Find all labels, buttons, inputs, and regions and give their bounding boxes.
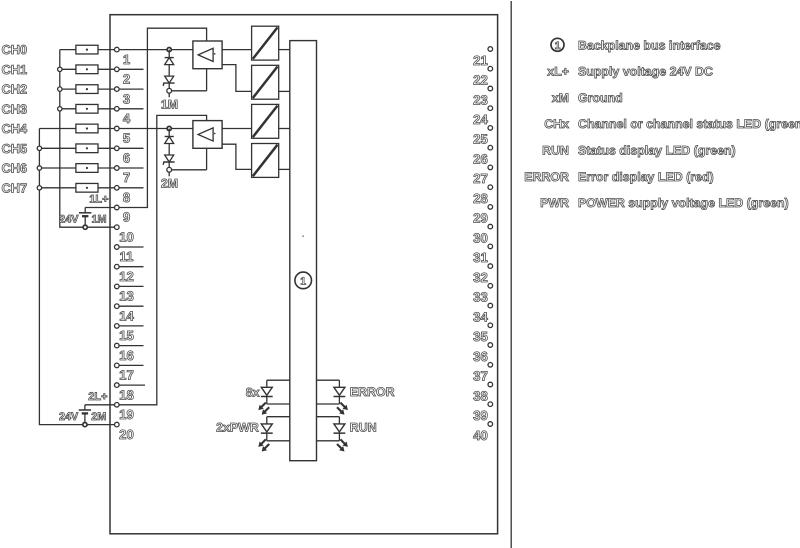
junction bus circle CH6 <box>37 166 41 170</box>
pin number 34 <box>473 309 488 324</box>
wire 2M to optocoupler return <box>172 148 207 170</box>
svg-text:36: 36 <box>473 349 488 364</box>
svg-text:37: 37 <box>473 369 488 384</box>
svg-text:2M: 2M <box>161 177 178 191</box>
resistor CH2 <box>76 85 98 94</box>
pin number 14 <box>119 308 134 323</box>
terminal 13 circle <box>115 284 120 289</box>
label ERROR (diagram) <box>350 385 395 399</box>
terminal 24 circle <box>488 106 493 111</box>
svg-text:5: 5 <box>123 131 130 146</box>
terminal 18 circle <box>115 383 120 388</box>
terminal 17 circle <box>115 363 120 368</box>
terminal 30 circle <box>488 224 493 229</box>
label 2xPWR <box>216 421 259 435</box>
terminal 35 circle <box>488 323 493 328</box>
pin number 30 <box>473 230 488 245</box>
stray dot mark <box>302 235 304 237</box>
terminal 38 circle <box>488 382 493 387</box>
terminal 37 circle <box>488 363 493 368</box>
svg-text:1: 1 <box>300 276 306 288</box>
pin number 16 <box>119 348 134 363</box>
svg-text:CH7: CH7 <box>2 180 28 195</box>
svg-text:Supply voltage 24V DC: Supply voltage 24V DC <box>578 65 713 79</box>
svg-text:40: 40 <box>473 428 488 443</box>
resistor CH5 <box>76 144 98 153</box>
junction diode chain 1 <box>167 48 171 52</box>
legend symbol circled 1 <box>551 38 564 52</box>
value label 24V (supply 2) <box>59 411 79 423</box>
wire battery 1 positive <box>85 207 114 209</box>
terminal 39 circle <box>488 402 493 407</box>
converter (electrical isolation) 3 <box>252 104 279 138</box>
legend text: Channel or channel status LED (green) <box>578 117 800 131</box>
pin number 10 <box>119 229 134 244</box>
svg-text:16: 16 <box>119 348 134 363</box>
svg-text:24: 24 <box>473 112 488 127</box>
terminal 19 circle <box>115 403 120 408</box>
wire CH4 input <box>39 128 114 130</box>
resistor CH6 <box>76 164 98 173</box>
svg-text:38: 38 <box>473 388 488 403</box>
pin number 35 <box>473 329 488 344</box>
resistor CH1 <box>76 65 98 74</box>
wire converter 4 to backplane bus <box>279 168 290 170</box>
terminal 32 circle <box>488 264 493 269</box>
terminal 3 circle <box>115 87 120 92</box>
terminal 14 circle <box>115 304 120 309</box>
wire terminal 12 stub <box>117 266 144 268</box>
resistor CH4 <box>76 124 98 133</box>
pin number 5 <box>123 131 130 146</box>
wire terminal 15 stub <box>117 325 144 327</box>
pin number 2 <box>123 72 130 87</box>
legend text: Backplane bus interface <box>578 38 721 52</box>
backplane bus <box>290 41 317 461</box>
wire terminal 4 stub <box>117 108 144 110</box>
wire terminal 5 to optocoupler <box>117 128 193 130</box>
wire optocoupler 1 out A <box>222 49 252 51</box>
svg-text:24V: 24V <box>59 214 79 226</box>
wire terminal 18 stub <box>117 384 145 386</box>
svg-text:1L+: 1L+ <box>89 194 108 206</box>
wire optocoupler 1 out B <box>222 65 252 92</box>
wire terminal 11 stub <box>117 246 144 248</box>
resistor CH3 <box>76 104 98 113</box>
terminal 8 circle <box>115 186 120 191</box>
legend label PWR <box>540 196 569 210</box>
label 8x <box>246 385 260 399</box>
diode (reverse polarity protection) group 2 <box>165 137 174 144</box>
svg-text:17: 17 <box>119 368 134 383</box>
svg-text:20: 20 <box>119 427 134 442</box>
legend label xM <box>552 91 569 105</box>
svg-text:Ground: Ground <box>578 91 623 105</box>
svg-text:CH3: CH3 <box>2 101 28 116</box>
svg-text:1: 1 <box>555 40 561 52</box>
terminal 21 circle <box>488 47 493 52</box>
pin number 1 <box>123 52 130 67</box>
pin number 27 <box>473 171 488 186</box>
pin number 20 <box>119 427 134 442</box>
wire terminal 1 to optocoupler <box>117 49 193 51</box>
wire terminal 6 stub <box>117 147 144 149</box>
terminal 20 circle <box>115 422 120 427</box>
terminal 33 circle <box>488 284 493 289</box>
node 2M label <box>161 177 178 191</box>
svg-text:22: 22 <box>473 73 488 88</box>
terminal 31 circle <box>488 244 493 249</box>
label RUN (diagram) <box>350 421 377 435</box>
node 1M terminal circle <box>167 88 172 97</box>
svg-text:Error display LED (red): Error display LED (red) <box>578 170 714 184</box>
pin number 26 <box>473 152 488 167</box>
terminal 15 circle <box>115 324 120 329</box>
svg-text:CH1: CH1 <box>2 62 28 77</box>
svg-text:30: 30 <box>473 230 488 245</box>
svg-text:ERROR: ERROR <box>524 170 569 184</box>
wire left bus 1 (CH0-CH3 to terminal 10) <box>60 50 115 228</box>
svg-text:CH4: CH4 <box>2 121 28 136</box>
wire terminal 2 stub <box>117 68 144 70</box>
pin number 38 <box>473 388 488 403</box>
pin number 17 <box>119 368 134 383</box>
wire diode chain 2 <box>168 129 170 168</box>
node CH0 label <box>2 42 28 57</box>
terminal 2 circle <box>115 67 120 72</box>
pin number 24 <box>473 112 488 127</box>
svg-text:15: 15 <box>119 328 134 343</box>
wire terminal 7 stub <box>117 167 144 169</box>
junction battery 2 on wire 20 <box>83 423 87 427</box>
node 2L+ label <box>88 391 107 403</box>
wire terminal 3 stub <box>117 88 144 90</box>
wire converter 2 to backplane bus <box>279 90 290 92</box>
junction bus circle CH3 <box>58 107 62 111</box>
terminal 7 circle <box>115 166 120 171</box>
LED PWR (2x) <box>258 417 290 452</box>
svg-text:1M: 1M <box>92 214 107 226</box>
junction bus circle CH1 <box>58 67 62 71</box>
page divider rule <box>510 1 512 548</box>
svg-text:CH6: CH6 <box>2 161 28 176</box>
LED ERROR <box>317 380 348 415</box>
junction bus circle CH7 <box>37 186 41 190</box>
junction battery 1 on wire 10 <box>83 225 87 229</box>
svg-text:Channel or channel status LED: Channel or channel status LED (green) <box>578 117 800 131</box>
svg-text:25: 25 <box>473 132 488 147</box>
wire CH1 input <box>60 68 115 70</box>
pin number 11 <box>120 249 134 264</box>
module enclosure box <box>110 15 498 534</box>
terminal 12 circle <box>115 264 120 269</box>
svg-text:33: 33 <box>473 290 488 305</box>
diode (reverse polarity protection) group 1 <box>165 58 174 65</box>
pin number 15 <box>119 328 134 343</box>
terminal 36 circle <box>488 343 493 348</box>
svg-text:9: 9 <box>123 210 130 225</box>
svg-text:27: 27 <box>473 171 488 186</box>
wire CH0 input <box>60 49 115 51</box>
wire terminal 13 stub <box>117 285 144 287</box>
svg-text:CHx: CHx <box>544 117 569 131</box>
terminal 4 circle <box>115 107 120 112</box>
svg-text:28: 28 <box>473 191 488 206</box>
wire CH2 input <box>60 88 115 90</box>
svg-text:6: 6 <box>123 151 130 166</box>
wire battery 2 positive <box>85 404 115 406</box>
svg-text:13: 13 <box>119 289 134 304</box>
node CH2 label <box>2 82 28 97</box>
svg-text:31: 31 <box>473 250 488 265</box>
wire optocoupler 2 out B <box>222 144 252 169</box>
svg-text:14: 14 <box>119 308 134 323</box>
svg-text:7: 7 <box>123 170 130 185</box>
svg-text:34: 34 <box>473 309 488 324</box>
pin number 33 <box>473 290 488 305</box>
pin number 22 <box>473 73 488 88</box>
battery 24V supply 2 <box>79 405 91 425</box>
wire terminal 16 stub <box>117 345 144 347</box>
pin number 7 <box>123 170 130 185</box>
terminal 10 circle <box>115 225 120 230</box>
pin number 8 <box>123 190 130 205</box>
wire terminal 9 to 1L+ loop <box>117 28 207 207</box>
node 1M label <box>161 98 178 112</box>
junction bus circle CH5 <box>37 146 41 150</box>
svg-text:2: 2 <box>123 72 130 87</box>
wire terminal 8 stub <box>117 187 144 189</box>
node 2M (supply) label <box>91 411 106 423</box>
wire converter 1 to backplane bus <box>279 49 290 51</box>
wire CH3 input <box>60 108 115 110</box>
svg-text:RUN: RUN <box>542 144 569 158</box>
zener diode group 2 <box>163 155 174 165</box>
node CH3 label <box>2 101 28 116</box>
pin number 6 <box>123 151 130 166</box>
svg-text:8x: 8x <box>246 385 260 399</box>
svg-text:2L+: 2L+ <box>88 391 107 403</box>
wire converter 3 to backplane bus <box>279 128 290 130</box>
pin number 13 <box>119 289 134 304</box>
svg-text:23: 23 <box>473 92 488 107</box>
terminal 28 circle <box>488 185 493 190</box>
converter (electrical isolation) 4 <box>252 144 279 178</box>
LED CHx status (8x) <box>258 380 290 415</box>
svg-text:12: 12 <box>119 269 134 284</box>
terminal 29 circle <box>488 205 493 210</box>
svg-text:4: 4 <box>123 111 131 126</box>
resistor CH7 <box>76 183 98 192</box>
legend text: Error display LED (red) <box>578 170 714 184</box>
svg-text:1: 1 <box>123 52 130 67</box>
svg-text:19: 19 <box>119 407 134 422</box>
svg-text:21: 21 <box>473 53 488 68</box>
svg-text:CH2: CH2 <box>2 82 28 97</box>
wire terminal 17 stub <box>117 364 144 366</box>
pin number 12 <box>119 269 134 284</box>
legend text: Supply voltage 24V DC <box>578 65 713 79</box>
node CH4 label <box>2 121 28 136</box>
wire diode chain 1 <box>168 50 170 89</box>
legend label xL+ <box>547 65 569 79</box>
pin number 9 <box>123 210 130 225</box>
svg-text:Backplane bus interface: Backplane bus interface <box>578 38 721 52</box>
node CH1 label <box>2 62 28 77</box>
svg-text:Status display LED (green): Status display LED (green) <box>578 144 736 158</box>
svg-text:PWR: PWR <box>540 196 569 210</box>
pin number 23 <box>473 92 488 107</box>
terminal 11 circle <box>115 245 120 250</box>
pin number 40 <box>473 428 488 443</box>
legend label ERROR <box>524 170 569 184</box>
pin number 37 <box>473 369 488 384</box>
terminal 34 circle <box>488 303 493 308</box>
node 1L+ label <box>89 194 108 206</box>
pin number 29 <box>473 211 488 226</box>
wire CH6 input <box>39 167 114 169</box>
legend label CHx <box>544 117 569 131</box>
terminal 23 circle <box>488 86 493 91</box>
svg-text:CH0: CH0 <box>2 42 28 57</box>
wire 1M to optocoupler return <box>172 69 207 91</box>
zener diode group 1 <box>163 76 174 86</box>
wire optocoupler 2 out A <box>222 128 252 130</box>
terminal 40 circle <box>488 422 493 427</box>
terminal 9 circle <box>115 205 120 210</box>
pin number 4 <box>123 111 131 126</box>
svg-text:POWER supply voltage LED (gree: POWER supply voltage LED (green) <box>578 196 789 210</box>
svg-text:18: 18 <box>119 387 134 402</box>
optocoupler group 2 <box>193 121 222 149</box>
pin number 28 <box>473 191 488 206</box>
wire terminal 19 to 2L+ loop <box>117 115 207 404</box>
resistor CH0 <box>76 45 98 54</box>
junction diode chain 2 <box>167 126 171 130</box>
terminal 26 circle <box>488 145 493 150</box>
node 2M terminal circle <box>167 167 172 176</box>
legend text: POWER supply voltage LED (green) <box>578 196 789 210</box>
pin number 21 <box>473 53 488 68</box>
svg-text:39: 39 <box>473 408 488 423</box>
pin number 3 <box>123 91 130 106</box>
svg-text:ERROR: ERROR <box>350 385 395 399</box>
pin number 36 <box>473 349 488 364</box>
LED RUN <box>317 417 348 452</box>
pin number 19 <box>119 407 134 422</box>
svg-text:32: 32 <box>473 270 488 285</box>
optocoupler group 1 <box>193 41 222 69</box>
svg-text:2xPWR: 2xPWR <box>216 421 259 435</box>
converter (electrical isolation) 1 <box>252 26 279 60</box>
node 1M (supply) label <box>92 214 107 226</box>
wire left bus 2 (CH4-CH7 to terminal 20) <box>39 129 114 425</box>
pin number 32 <box>473 270 488 285</box>
svg-text:26: 26 <box>473 152 488 167</box>
svg-text:35: 35 <box>473 329 488 344</box>
svg-text:3: 3 <box>123 91 130 106</box>
svg-text:8: 8 <box>123 190 130 205</box>
terminal 25 circle <box>488 126 493 131</box>
converter (electrical isolation) 2 <box>252 65 279 99</box>
terminal 1 circle <box>115 47 120 52</box>
junction bus circle CH2 <box>58 87 62 91</box>
svg-text:2M: 2M <box>91 411 106 423</box>
legend text: Ground <box>578 91 623 105</box>
node CH5 label <box>2 141 28 156</box>
pin number 39 <box>473 408 488 423</box>
svg-text:xM: xM <box>552 91 569 105</box>
wire CH7 input <box>39 187 114 189</box>
value label 24V (supply 1) <box>59 214 79 226</box>
svg-text:11: 11 <box>120 249 134 264</box>
svg-text:10: 10 <box>119 229 134 244</box>
svg-text:CH5: CH5 <box>2 141 28 156</box>
legend text: Status display LED (green) <box>578 144 736 158</box>
pin number 25 <box>473 132 488 147</box>
battery 24V supply 1 <box>79 208 91 228</box>
terminal 16 circle <box>115 343 120 348</box>
legend label RUN <box>542 144 569 158</box>
svg-text:1M: 1M <box>161 98 178 112</box>
svg-text:RUN: RUN <box>350 421 377 435</box>
terminal 6 circle <box>115 146 120 151</box>
terminal 5 circle <box>115 126 120 131</box>
terminal 22 circle <box>488 66 493 71</box>
wire CH5 input <box>39 147 114 149</box>
terminal 27 circle <box>488 165 493 170</box>
pin number 18 <box>119 387 134 402</box>
svg-text:29: 29 <box>473 211 488 226</box>
wire terminal 14 stub <box>117 305 144 307</box>
svg-text:24V: 24V <box>59 411 79 423</box>
backplane bus interface symbol 1 <box>295 272 312 289</box>
node CH6 label <box>2 161 28 176</box>
svg-text:xL+: xL+ <box>547 65 569 79</box>
pin number 31 <box>473 250 488 265</box>
node CH7 label <box>2 180 28 195</box>
